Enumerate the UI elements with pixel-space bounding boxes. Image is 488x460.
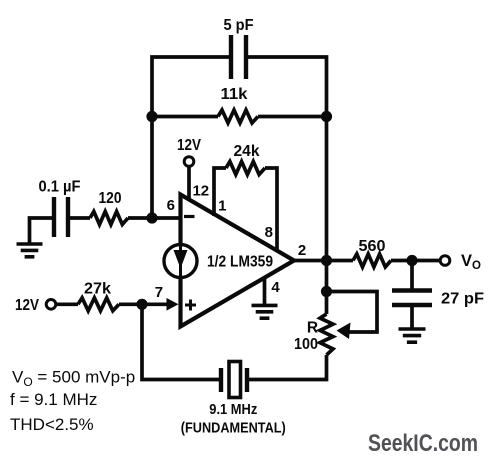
op-amp U1 1/2 LM359 triangle xyxy=(181,195,295,327)
wire 5pF to top-right xyxy=(246,57,327,261)
svg-text:1: 1 xyxy=(218,198,226,215)
terminal 12V left xyxy=(46,300,56,310)
svg-text:4: 4 xyxy=(271,279,280,296)
capacitor C3 27pF plates xyxy=(392,291,432,306)
svg-text:27 pF: 27 pF xyxy=(441,291,484,308)
svg-text:f = 9.1 MHz: f = 9.1 MHz xyxy=(10,390,97,409)
wire 24k to pin 8 xyxy=(265,168,277,252)
svg-text:(FUNDAMENTAL): (FUNDAMENTAL) xyxy=(181,421,286,437)
capacitor C1 5pF plates xyxy=(231,35,246,79)
svg-text:8: 8 xyxy=(265,224,273,241)
resistor 27k xyxy=(78,298,119,311)
ground G3 27pF xyxy=(399,329,426,342)
junction node 11k-right xyxy=(321,111,332,122)
svg-text:R: R xyxy=(307,320,318,337)
svg-text:7: 7 xyxy=(155,284,163,301)
svg-text:12V: 12V xyxy=(177,137,202,154)
svg-text:560: 560 xyxy=(359,238,386,255)
resistor 560 xyxy=(353,254,391,267)
svg-text:2: 2 xyxy=(298,242,306,259)
minus input symbol xyxy=(184,215,195,218)
terminal Vo output xyxy=(440,256,450,266)
svg-text:SeekIC.com: SeekIC.com xyxy=(368,430,478,457)
resistor 120 xyxy=(90,212,128,225)
wire 12V to 27k xyxy=(55,302,78,306)
resistor 11k xyxy=(218,110,258,123)
current source symbol inside op-amp xyxy=(164,245,197,278)
junction node 11k-left xyxy=(146,111,157,122)
wire 27pF to ground xyxy=(410,305,414,329)
plus input symbol xyxy=(185,300,196,311)
wire input cap to ground xyxy=(30,218,55,244)
wire output pin 2 xyxy=(294,259,353,263)
svg-text:12: 12 xyxy=(192,183,209,200)
wire top-left to 5pF xyxy=(152,57,231,218)
svg-text:24k: 24k xyxy=(234,143,260,160)
svg-text:6: 6 xyxy=(167,197,175,214)
svg-text:27k: 27k xyxy=(84,281,111,298)
junction node Vo xyxy=(406,255,417,266)
wire 12V supply to pin 12 xyxy=(187,166,191,202)
wire 11k to right vertical xyxy=(258,115,327,119)
resistor 24k xyxy=(226,162,265,175)
svg-text:0.1 µF: 0.1 µF xyxy=(39,179,81,196)
wire junction to crystal xyxy=(142,304,221,379)
wire 560 to Vo terminal xyxy=(391,259,441,263)
svg-text:100: 100 xyxy=(294,336,318,353)
junction node pin6 xyxy=(146,212,157,223)
ground G1 input xyxy=(17,244,43,257)
potentiometer R 100 xyxy=(320,314,333,355)
svg-text:120: 120 xyxy=(99,190,122,207)
ground G2 pin4 xyxy=(252,305,278,318)
crystal Y1 9.1 MHz xyxy=(221,362,247,398)
wire 120 to pin 6 xyxy=(128,216,181,220)
junction node output xyxy=(321,255,332,266)
wire Vo node down to 27pF xyxy=(410,261,414,291)
svg-text:9.1 MHz: 9.1 MHz xyxy=(209,402,257,418)
wire cap to 120 xyxy=(68,216,90,220)
junction node pin7 xyxy=(136,299,147,310)
wire crystal to right vertical xyxy=(247,355,327,380)
svg-text:1/2 LM359: 1/2 LM359 xyxy=(207,254,273,271)
wire pot top xyxy=(325,261,329,315)
terminal 12V top xyxy=(184,157,194,167)
wire 27k to pin 7 xyxy=(119,302,168,306)
wire pin 4 to ground xyxy=(263,279,267,305)
svg-text:12V: 12V xyxy=(15,297,40,314)
svg-text:5 pF: 5 pF xyxy=(224,17,254,34)
arrow into pin 7 xyxy=(167,298,179,311)
wire pot wiper loop xyxy=(327,292,378,333)
svg-text:THD<2.5%: THD<2.5% xyxy=(10,415,94,434)
junction node pot-top xyxy=(321,286,332,297)
capacitor C2 0.1uF plates xyxy=(54,197,68,237)
arrow pot wiper xyxy=(337,323,351,340)
svg-text:11k: 11k xyxy=(221,86,248,103)
wire pin 1 to 24k xyxy=(214,168,226,216)
wire 11k row xyxy=(152,115,218,119)
